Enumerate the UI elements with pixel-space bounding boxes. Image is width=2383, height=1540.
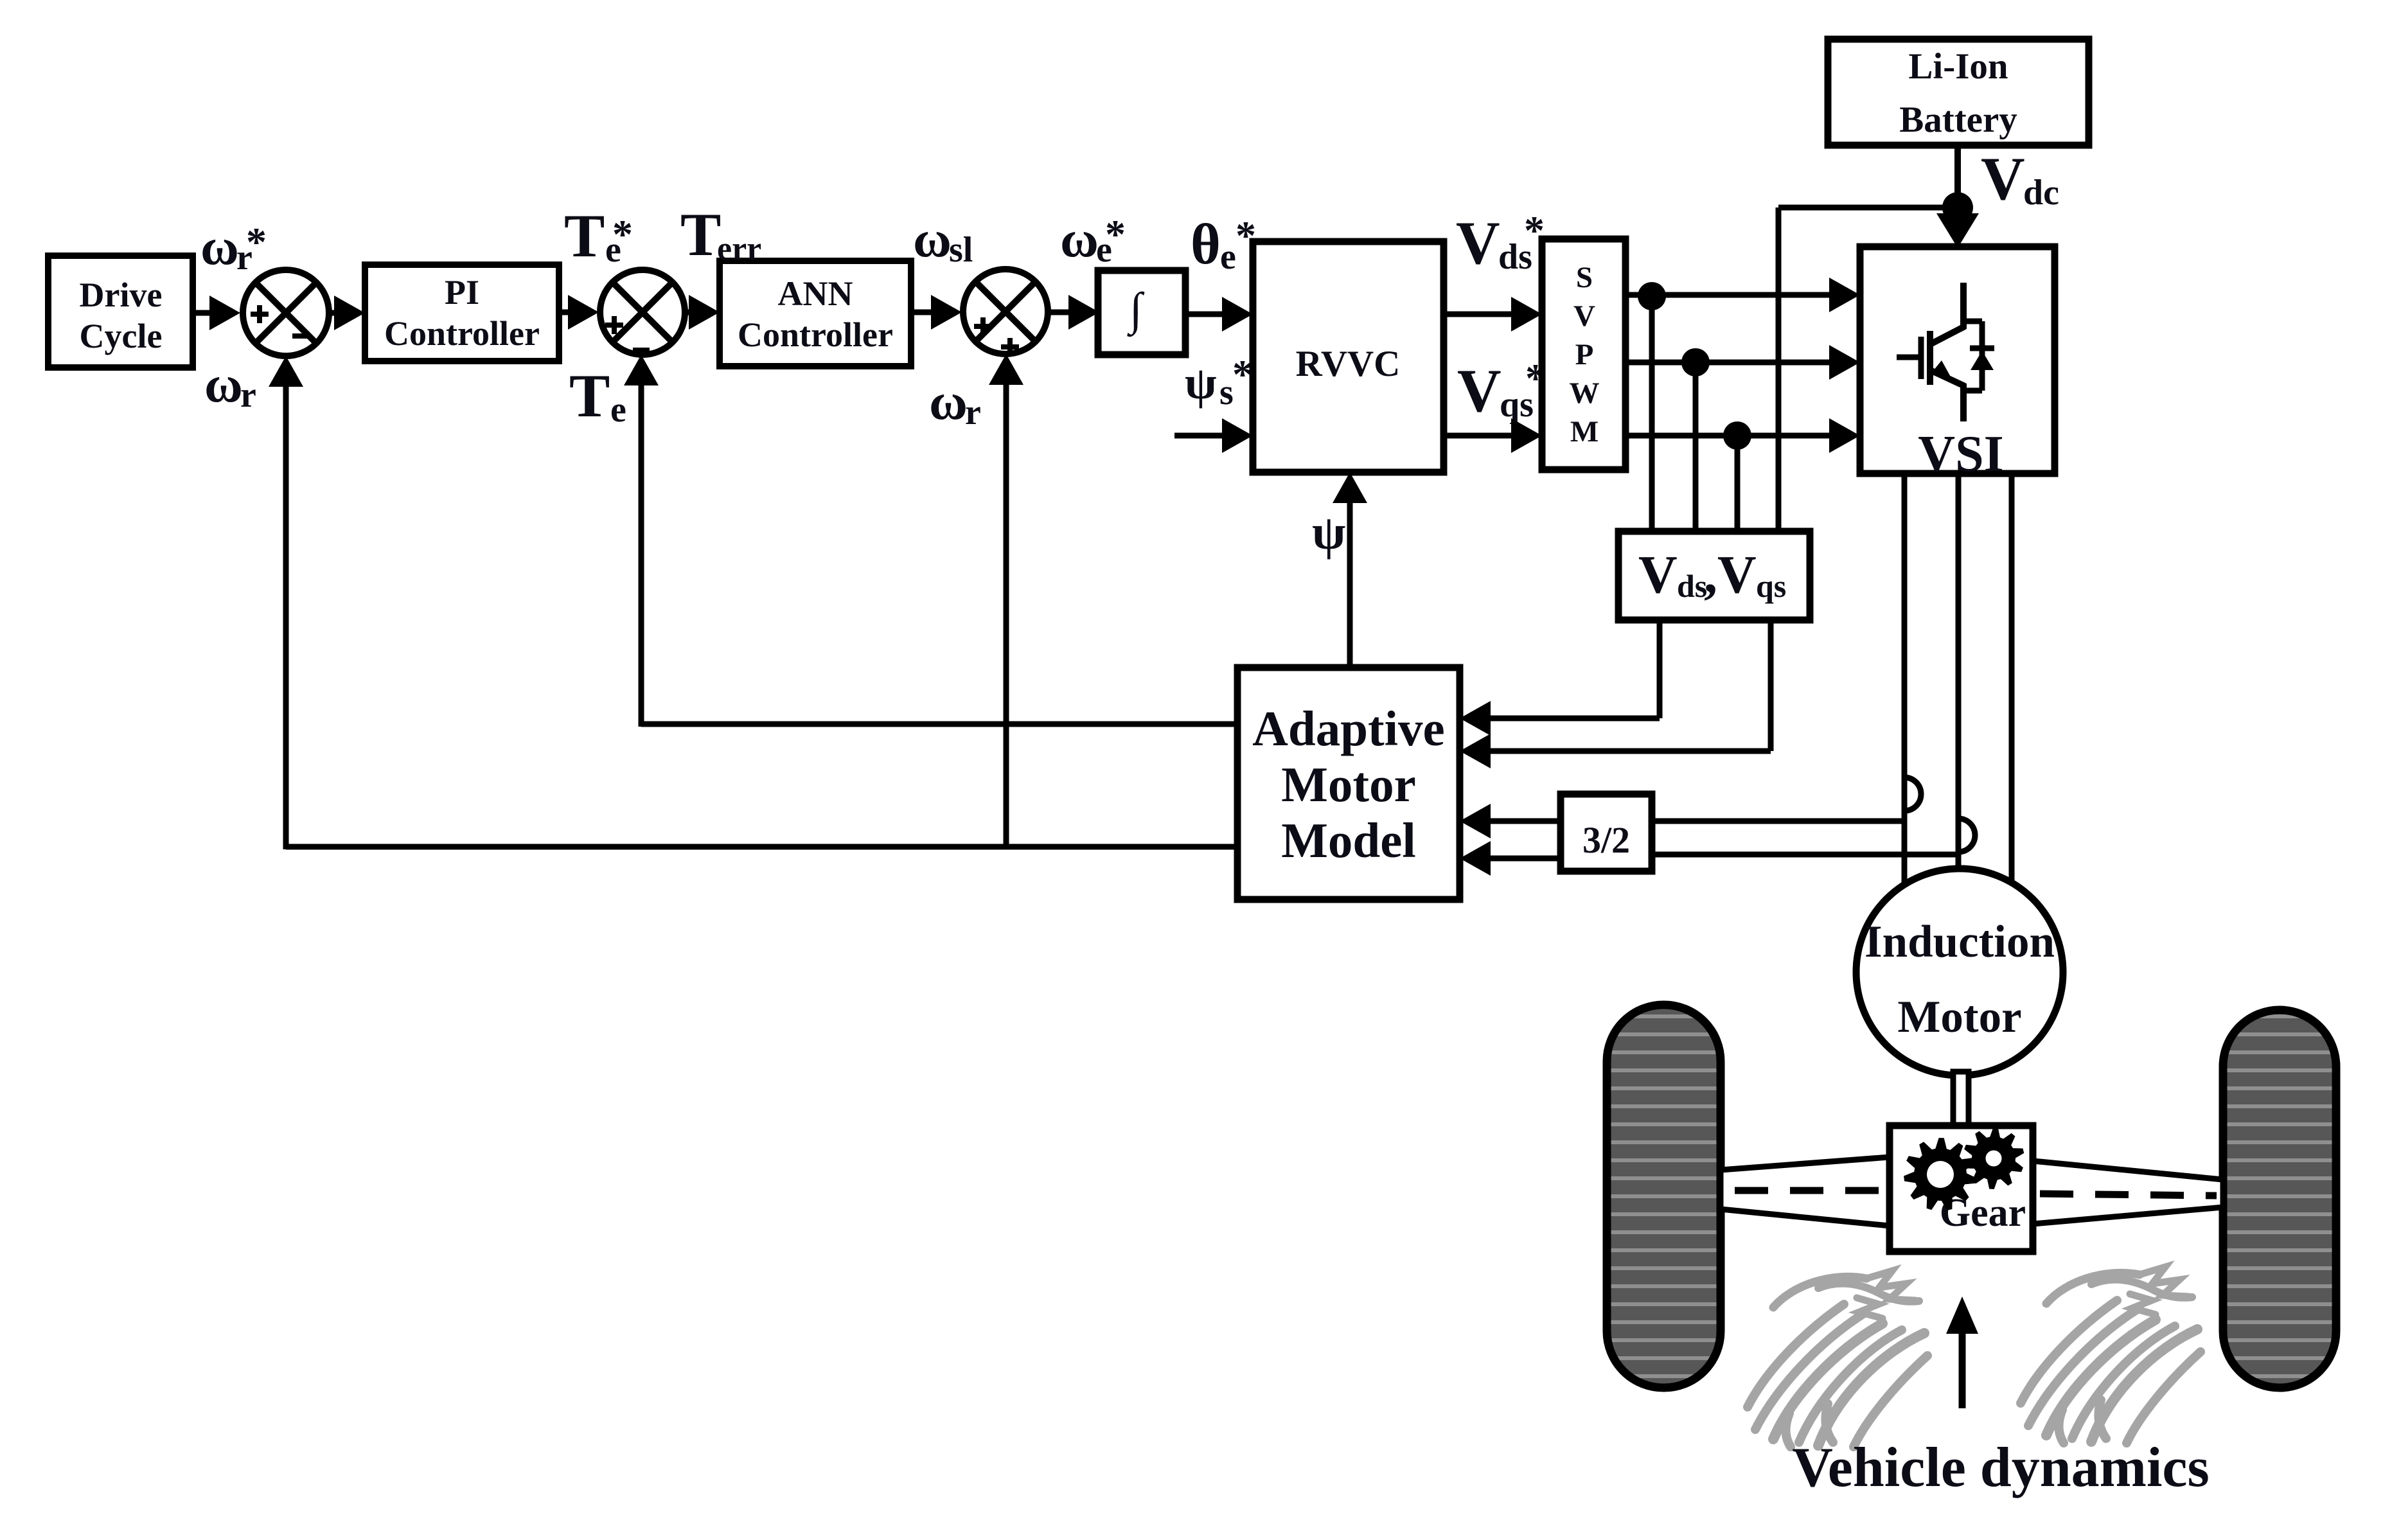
summing junction S2 xyxy=(600,270,685,355)
svg-text:*: * xyxy=(612,211,633,257)
svg-text:r: r xyxy=(965,393,981,432)
svg-text:Drive: Drive xyxy=(80,276,163,314)
svg-text:e: e xyxy=(1220,237,1236,277)
block Drive Cycle xyxy=(48,256,193,367)
label theta_e_star xyxy=(1191,213,1256,277)
label omega_sl xyxy=(913,209,973,270)
svg-text:Li-Ion: Li-Ion xyxy=(1908,46,2008,87)
svg-text:V: V xyxy=(1456,209,1500,277)
svg-text:θ: θ xyxy=(1191,213,1221,276)
left axle xyxy=(1721,1157,1890,1226)
block ANN Controller xyxy=(720,261,911,366)
tire marks right xyxy=(2021,1267,2201,1443)
svg-text:sl: sl xyxy=(949,230,973,270)
wire phase B drop to Vds,Vqs block xyxy=(1693,362,1699,531)
wire S3 to integrator xyxy=(1048,295,1099,330)
wire VSI phase B to motor xyxy=(1956,474,1962,874)
svg-text:ANN: ANN xyxy=(778,274,853,313)
svg-text:M: M xyxy=(1570,415,1599,448)
svg-text:ω: ω xyxy=(929,372,968,430)
wire S1 to PI Controller xyxy=(329,296,365,330)
svg-text:Controller: Controller xyxy=(384,314,540,353)
svg-text:err: err xyxy=(717,231,761,267)
svg-text:*: * xyxy=(246,219,267,265)
label omega_r at S3 xyxy=(929,372,981,432)
label V_qs_star xyxy=(1457,355,1546,425)
transistor IGBT inside VSI xyxy=(1897,283,1994,421)
label omega_e_star xyxy=(1060,209,1126,270)
wire VSI phase C to motor xyxy=(2009,474,2015,893)
right wheel xyxy=(2223,1010,2336,1388)
svg-text:V: V xyxy=(1638,545,1678,605)
wire S2 to ANN Controller xyxy=(685,295,720,330)
svg-text:ds: ds xyxy=(1677,568,1707,604)
wire Vds sense output to Adaptive Motor Model xyxy=(1460,620,1660,736)
wire flux reference into RVVC xyxy=(1174,418,1253,453)
label T_e_star xyxy=(564,202,633,270)
svg-text:T: T xyxy=(569,362,610,430)
svg-text:Vehicle dynamics: Vehicle dynamics xyxy=(1792,1437,2209,1499)
svg-text:PI: PI xyxy=(445,273,479,312)
tire marks left xyxy=(1748,1271,1927,1447)
label V_ds_star xyxy=(1456,208,1545,277)
block gear box xyxy=(1890,1126,2033,1252)
block PI Controller xyxy=(365,265,559,361)
svg-text:V: V xyxy=(1573,299,1595,333)
summing junction S1 xyxy=(243,270,329,356)
node induction motor xyxy=(1856,869,2063,1075)
label omega_r feedback at S1 xyxy=(204,355,256,415)
svg-text:r: r xyxy=(240,375,256,415)
svg-text:T: T xyxy=(680,200,721,269)
wire Vdc branch to Vds,Vqs block xyxy=(1778,208,1958,531)
wire 3/2 lower output to model xyxy=(1460,841,1561,876)
svg-text:Adaptive: Adaptive xyxy=(1252,701,1444,756)
wire Vdc arrow into VSI xyxy=(1936,208,1979,248)
svg-text:*: * xyxy=(1105,211,1126,257)
svg-text:,V: ,V xyxy=(1704,545,1757,605)
block SVPWM xyxy=(1542,239,1626,470)
junction dot phase C xyxy=(1723,421,1751,450)
svg-text:S: S xyxy=(1576,261,1593,294)
svg-text:RVVC: RVVC xyxy=(1296,344,1401,384)
svg-text:ψ: ψ xyxy=(1185,357,1217,409)
label T_e feedback at S2 xyxy=(569,362,626,430)
label omega_r_star xyxy=(200,217,267,278)
block Vds,Vqs sensing xyxy=(1618,531,1810,620)
wire Vqs sense output to Adaptive Motor Model xyxy=(1460,620,1771,768)
wire psi from model to RVVC xyxy=(1333,472,1367,668)
wire SVPWM phase A to VSI xyxy=(1626,278,1860,312)
wire PI to summer S2 xyxy=(559,295,599,330)
wire phase C drop to Vds,Vqs block xyxy=(1735,436,1741,531)
gear wheel small xyxy=(1963,1128,2024,1189)
left wheel xyxy=(1607,1005,1721,1388)
wire Drive Cycle to summer S1 xyxy=(193,296,240,330)
wire current sense phase A to 3/2 xyxy=(1652,819,1904,824)
svg-text:qs: qs xyxy=(1756,568,1786,604)
svg-text:3/2: 3/2 xyxy=(1582,819,1630,861)
vehicle dynamics arrow xyxy=(1946,1297,1978,1408)
svg-text:V: V xyxy=(1981,145,2025,213)
wire omega_r feedback to S1 and S3 xyxy=(269,354,1237,849)
svg-text:W: W xyxy=(1570,376,1600,410)
current sensor hook phase A xyxy=(1904,777,1921,811)
right axle xyxy=(2033,1161,2223,1224)
wire Te feedback to S2 xyxy=(624,355,1237,727)
wire integrator to RVVC xyxy=(1185,297,1253,332)
block RVVC xyxy=(1253,242,1444,472)
label V_dc xyxy=(1981,145,2059,213)
svg-text:Battery: Battery xyxy=(1899,100,2017,140)
block Li-Ion Battery xyxy=(1828,39,2089,145)
wire SVPWM phase B to VSI xyxy=(1626,345,1860,380)
label psi_s_star xyxy=(1185,351,1253,412)
svg-text:ω: ω xyxy=(1060,209,1099,268)
svg-text:Motor: Motor xyxy=(1281,757,1416,812)
svg-text:ω: ω xyxy=(204,355,243,413)
svg-text:ψ: ψ xyxy=(1312,506,1345,560)
wire current sense phase B to 3/2 xyxy=(1652,852,1958,858)
svg-text:Cycle: Cycle xyxy=(80,317,163,355)
junction dot phase B xyxy=(1681,348,1710,376)
wire battery to Vdc node xyxy=(1954,145,1961,208)
svg-text:ω: ω xyxy=(200,217,239,276)
block VSI xyxy=(1860,247,2055,482)
wire ANN to summer S3 xyxy=(911,295,962,330)
svg-text:P: P xyxy=(1575,338,1594,371)
svg-text:Motor: Motor xyxy=(1897,992,2021,1042)
wire VSI phase A to motor xyxy=(1902,474,1908,893)
current sensor hook phase B xyxy=(1958,819,1975,852)
svg-text:Controller: Controller xyxy=(738,315,893,354)
wire SVPWM phase C to VSI xyxy=(1626,418,1860,453)
svg-text:Induction: Induction xyxy=(1865,917,2055,967)
svg-text:T: T xyxy=(564,202,605,270)
wire RVVC Vqs* to SVPWM xyxy=(1444,418,1542,453)
motor shaft to gear xyxy=(1953,1072,1969,1127)
block integrator xyxy=(1098,270,1185,355)
svg-text:Model: Model xyxy=(1281,813,1416,868)
block Adaptive Motor Model xyxy=(1237,668,1460,899)
gear wheel large xyxy=(1904,1138,1977,1210)
wire 3/2 upper output to model xyxy=(1460,804,1561,838)
svg-text:dc: dc xyxy=(2023,173,2059,213)
label T_err xyxy=(680,200,761,269)
svg-text:ω: ω xyxy=(913,209,952,268)
wire RVVC Vds* to SVPWM xyxy=(1444,297,1542,332)
wire phase A drop to Vds,Vqs block xyxy=(1649,296,1655,531)
svg-text:V: V xyxy=(1457,357,1502,425)
svg-text:e: e xyxy=(610,390,626,430)
block 3/2 transform xyxy=(1561,794,1652,871)
junction dot Vdc xyxy=(1942,192,1973,223)
junction dot phase A xyxy=(1638,282,1666,310)
summing junction S3 xyxy=(963,269,1048,356)
svg-text:s: s xyxy=(1219,373,1234,412)
